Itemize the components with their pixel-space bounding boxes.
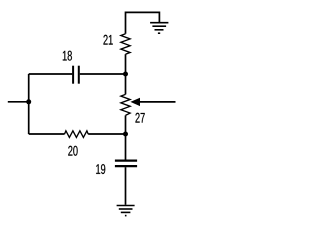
- wire: left stub to edge: [8, 101, 29, 103]
- label 27: [135, 113, 144, 123]
- node J2 (junction of R20, R27, C19): [123, 132, 128, 137]
- label 21: [103, 35, 112, 45]
- wire: resistor 20 right lead to node J2: [88, 133, 125, 135]
- node J3 (left tap): [26, 99, 31, 104]
- wire: resistor 21 bottom lead to node J1: [125, 54, 127, 74]
- capacitor C19 (vertical, two horizontal plates): [115, 161, 137, 167]
- wire: bottom rail to resistor 20 left lead: [29, 133, 65, 135]
- ground GND2 (bottom): [117, 206, 135, 216]
- label 19: [96, 164, 105, 174]
- wire: node J2 down to capacitor 19 top plate: [125, 134, 127, 160]
- ground GND1 (top right): [150, 23, 168, 34]
- wire: left rail vertical: [28, 74, 30, 134]
- resistor R20 (horizontal): [65, 131, 89, 138]
- wire: capacitor 18 left plate to left rail corner: [29, 73, 72, 75]
- resistor R21 (vertical): [121, 34, 130, 54]
- wire: wiper lead to right: [140, 101, 176, 103]
- label 18: [63, 51, 72, 61]
- label 20: [68, 146, 77, 156]
- capacitor C18 (horizontal, two vertical plates): [73, 66, 79, 84]
- potentiometer R27 wiper arrowhead: [130, 98, 140, 106]
- wire: capacitor 19 bottom plate down to ground stem: [125, 167, 127, 205]
- wire: potentiometer 27 bottom to node J2: [125, 115, 127, 134]
- wire: resistor 21 top lead up, across to ground stem: [126, 12, 160, 33]
- potentiometer R27 body (vertical zigzag): [121, 94, 130, 115]
- node J1 (junction of C18, R21, R27): [123, 72, 128, 77]
- wire: node J1 left to capacitor 18 right plate: [80, 73, 126, 75]
- wire: node J1 down to potentiometer 27: [125, 74, 127, 94]
